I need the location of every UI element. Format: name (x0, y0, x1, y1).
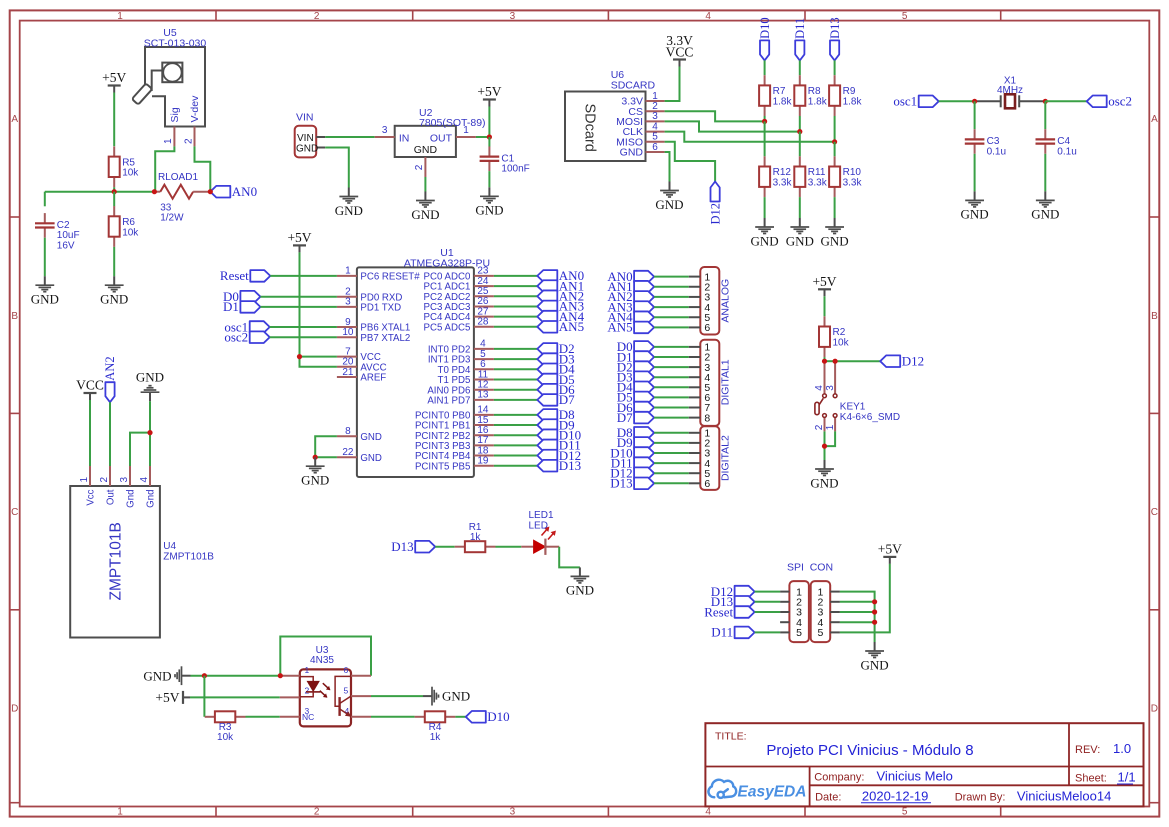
node junction gnd/R3 (202, 673, 207, 678)
svg-text:GND: GND (1031, 207, 1059, 222)
node junction +5V/VCC (297, 354, 302, 359)
net flag Reset (SPI) (704, 604, 754, 619)
wire SDCARD GND down (665, 152, 670, 182)
svg-text:Drawn By:: Drawn By: (955, 791, 1006, 803)
svg-text:7805(SOT-89): 7805(SOT-89) (419, 117, 486, 129)
wire D11 to DIGITAL2 (654, 462, 689, 464)
wire osc2 to U1 pin10 (270, 336, 337, 338)
svg-text:NC: NC (302, 712, 314, 722)
power flag +5V (R2) (812, 274, 836, 297)
svg-text:28: 28 (477, 317, 489, 328)
wire GND to U3 pin1 (191, 675, 281, 677)
svg-text:GND: GND (442, 689, 470, 704)
svg-text:GND: GND (414, 144, 438, 156)
wire AN0 to ANALOG (654, 276, 689, 278)
svg-text:21: 21 (342, 367, 354, 378)
wire D6 to DIGITAL1 (654, 407, 689, 409)
wire R6 to ground (113, 247, 115, 276)
svg-text:1.0: 1.0 (1113, 741, 1131, 756)
svg-text:10k: 10k (833, 338, 850, 349)
wire D13 to SPI (755, 601, 781, 603)
svg-text:PCINT5 PB5: PCINT5 PB5 (415, 461, 470, 472)
svg-text:DIGITAL1: DIGITAL1 (720, 359, 732, 405)
wire D10 to R7 (764, 60, 766, 75)
wire +5V to SPI pin5 (840, 564, 890, 633)
wire 3.3V to SDCARD pin1 (665, 67, 680, 102)
svg-text:RLOAD1: RLOAD1 (158, 172, 198, 183)
node junction KEY1 pin3/D12 (833, 359, 838, 364)
wire D11 to R8 (799, 60, 801, 75)
svg-text:6: 6 (704, 322, 710, 334)
svg-text:D12: D12 (902, 354, 924, 369)
connector SPI CON left column (780, 581, 809, 642)
svg-text:3: 3 (382, 125, 388, 136)
border column numbers (117, 11, 908, 818)
node junction KEY1 gnd (822, 444, 827, 449)
push button KEY1 K4-6x6_SMD (814, 361, 900, 431)
wire +5V to VCC/AVCC (300, 252, 337, 356)
wire Reset to SPI (755, 611, 781, 613)
net flag AN5 (ANALOG) (607, 320, 654, 335)
wire D4 to DIGITAL1 (654, 386, 689, 388)
wire C4 up (1044, 101, 1046, 129)
svg-text:Date:: Date: (815, 791, 841, 803)
svg-text:D13: D13 (610, 476, 632, 491)
svg-text:Vinicius Melo: Vinicius Melo (877, 769, 953, 784)
wire U1 to D3 flag (494, 358, 537, 360)
svg-text:GND: GND (136, 369, 164, 384)
svg-text:K4-6×6_SMD: K4-6×6_SMD (840, 412, 900, 423)
ground below C3 (961, 191, 989, 221)
current transformer U5 SCT-013-030 (132, 27, 207, 146)
wire pin1 loop over U3 to pin6 (280, 637, 371, 676)
wire U1 to AN0 flag (494, 275, 537, 277)
svg-text:3.3k: 3.3k (773, 178, 793, 189)
wire C3 up (974, 101, 976, 129)
wire D5 to DIGITAL1 (654, 396, 689, 398)
ground below C1 (475, 187, 503, 217)
svg-text:4: 4 (705, 11, 711, 22)
wire R5 to junction (113, 187, 115, 192)
wire U2 pin2 to ground (424, 177, 426, 192)
svg-text:2: 2 (314, 807, 320, 818)
connector ANALOG header (689, 267, 732, 335)
svg-text:B: B (11, 311, 18, 322)
sensor module U4 ZMPT101B (70, 466, 214, 638)
svg-text:6: 6 (344, 665, 349, 675)
net flag AN4 (ANALOG) (607, 310, 654, 325)
node junction U4 gnd (147, 430, 152, 435)
resistor R6 10k (109, 206, 140, 247)
svg-text:D13: D13 (391, 539, 413, 554)
wire D1 to U1 pin3 (260, 306, 337, 308)
net flag osc2 (U1) (224, 330, 269, 345)
node junction pin1 loop (278, 673, 283, 678)
wire D2 to DIGITAL1 (654, 366, 689, 368)
wire D1 to DIGITAL1 (654, 356, 689, 358)
net flag AN4 (U1) (537, 309, 584, 324)
wire U1 to D12 flag (494, 455, 537, 457)
ground below SPI (861, 642, 889, 672)
wire U1 GND pins (315, 436, 337, 457)
wire D7 to DIGITAL1 (654, 417, 689, 419)
wire U1 to D8 flag (494, 414, 537, 416)
svg-text:D10: D10 (758, 17, 772, 39)
wire osc1 to crystal (939, 100, 975, 102)
wire SDCARD MISO to D12 flag (665, 142, 716, 182)
wire U5 pin2 loop to AN0 node (195, 146, 211, 191)
svg-text:SPI CON: SPI CON (787, 562, 833, 574)
svg-text:2: 2 (99, 477, 110, 483)
svg-text:1: 1 (825, 424, 836, 430)
svg-text:4: 4 (705, 807, 711, 818)
wire U1 to D9 flag (494, 424, 537, 426)
svg-text:2: 2 (814, 424, 825, 430)
svg-text:Out: Out (106, 489, 117, 505)
svg-text:GND: GND (566, 583, 594, 598)
net flag D10 (top) (758, 17, 772, 60)
resistor RLOAD1 33 1/2W (zigzag) (154, 172, 210, 224)
svg-text:GND: GND (360, 432, 382, 443)
net flag AN0 (RLOAD1) (210, 184, 257, 199)
crystal X1 4MHz (975, 75, 1046, 108)
wire C3 to ground (974, 154, 976, 192)
svg-text:3.3k: 3.3k (843, 178, 863, 189)
svg-text:2: 2 (314, 11, 320, 22)
net flag D9 (DIGITAL2) (617, 435, 654, 450)
svg-text:0.1u: 0.1u (1057, 146, 1076, 157)
svg-text:5: 5 (817, 627, 823, 639)
wire C4 to ground (1044, 154, 1046, 192)
svg-text:GND: GND (296, 143, 318, 154)
node junction GND pins (313, 455, 318, 460)
svg-text:1k: 1k (430, 732, 442, 743)
node junction SPI pin4 (872, 620, 877, 625)
net flag D12 (SDCARD) (708, 182, 722, 225)
svg-text:C: C (1151, 507, 1158, 518)
net flag AN3 (U1) (537, 299, 584, 314)
wire node to R11 (799, 132, 801, 157)
net flag AN0 (U1) (537, 268, 584, 283)
svg-text:10: 10 (342, 327, 354, 338)
svg-text:GND: GND (961, 207, 989, 222)
wire U3 pin4 to R4 (371, 716, 415, 718)
net flag osc1 (U1) (224, 319, 269, 334)
svg-text:D7: D7 (559, 392, 575, 407)
wire U1 to D5 flag (494, 379, 537, 381)
wire D12 to SPI (755, 591, 781, 593)
power flag +5V (SPI) (878, 541, 902, 564)
net flag D12 (U1) (537, 448, 581, 463)
svg-text:+5V: +5V (477, 84, 501, 99)
svg-text:GND: GND (411, 207, 439, 222)
power flag +5V left of U3 (155, 690, 190, 705)
svg-text:AREF: AREF (360, 373, 386, 384)
ground above U4 (flipped) (136, 369, 164, 401)
wire AN2 to ANALOG (654, 296, 689, 298)
svg-text:3: 3 (825, 385, 836, 391)
MCU U1 ATMEGA328P-PU (337, 247, 494, 477)
svg-text:D13: D13 (559, 458, 581, 473)
wire Reset to U1 pin1 (270, 275, 337, 277)
net flag Reset (U1) (220, 268, 270, 283)
net flag D13 (SPI) (711, 594, 755, 609)
net flag AN3 (ANALOG) (607, 299, 654, 314)
svg-text:GND: GND (335, 203, 363, 218)
ground below KEY1 (810, 460, 838, 490)
wire R4 to D10 flag (455, 716, 465, 718)
svg-text:3: 3 (119, 477, 130, 483)
svg-text:A: A (1151, 114, 1158, 125)
net flag AN0 (ANALOG) (607, 269, 654, 284)
ground below SDCARD (655, 182, 683, 212)
svg-text:GND: GND (31, 292, 59, 307)
svg-text:GND: GND (100, 292, 128, 307)
connector DIGITAL2 header (689, 426, 732, 490)
svg-text:100nF: 100nF (501, 164, 529, 175)
svg-text:3: 3 (510, 11, 516, 22)
svg-text:2: 2 (414, 164, 425, 170)
svg-text:PC5 ADC5: PC5 ADC5 (424, 322, 471, 333)
net flag D13 (top) (828, 17, 842, 60)
resistor R10 3.3k (829, 156, 862, 197)
wire R12 to ground (764, 197, 766, 218)
svg-text:1k: 1k (470, 532, 482, 543)
resistor R3 10k (205, 711, 246, 743)
svg-text:TITLE:: TITLE: (715, 731, 747, 743)
wire U2 OUT to +5V node (476, 136, 490, 138)
svg-text:1: 1 (305, 665, 310, 675)
svg-text:osc2: osc2 (224, 330, 248, 345)
svg-text:D1: D1 (223, 299, 239, 314)
net flag AN2 (ANALOG) (607, 289, 654, 304)
wire R7 to node (764, 116, 766, 121)
svg-text:VCC: VCC (76, 378, 104, 393)
wire SDCARD CS to R7 node (665, 111, 765, 121)
svg-text:5: 5 (796, 627, 802, 639)
resistor R7 1.8k (759, 75, 792, 116)
svg-text:1: 1 (345, 266, 351, 277)
net flag D11 (SPI) (711, 625, 754, 640)
wire VCC to U4 pin1 (89, 400, 91, 466)
node junction SPI pin3 (872, 609, 877, 614)
node junction osc1/C3 (972, 99, 977, 104)
svg-text:2: 2 (305, 685, 310, 695)
net flag D4 (U1) (537, 362, 575, 377)
svg-text:SDCARD: SDCARD (611, 80, 656, 92)
svg-text:3: 3 (345, 297, 351, 308)
svg-text:VCC: VCC (666, 45, 694, 60)
wire node to C1 (488, 137, 490, 147)
ground flag left of U3 (143, 666, 190, 685)
svg-text:GND: GND (810, 475, 838, 490)
wire U1 to D11 flag (494, 444, 537, 446)
svg-text:ViniciusMeloo14: ViniciusMeloo14 (1017, 788, 1111, 803)
wire +5V to R2 (824, 296, 826, 316)
resistor R5 10k (109, 146, 140, 187)
wire D0 to U1 pin2 (260, 296, 337, 298)
ground below LED (566, 567, 594, 597)
svg-text:1/1: 1/1 (1118, 770, 1136, 785)
wire U1 to D4 flag (494, 368, 537, 370)
net flag D5 (DIGITAL1) (617, 390, 654, 405)
svg-text:+5V: +5V (287, 230, 311, 245)
net flag D7 (U1) (537, 392, 575, 407)
net flag AN1 (U1) (537, 278, 584, 293)
svg-text:PD1 TXD: PD1 TXD (360, 303, 401, 314)
net flag D3 (U1) (537, 351, 574, 366)
svg-text:10k: 10k (217, 732, 234, 743)
svg-text:D: D (1151, 704, 1158, 715)
wire R8 to node (799, 116, 801, 132)
svg-text:1.8k: 1.8k (808, 96, 828, 107)
net flag D6 (DIGITAL1) (617, 400, 654, 415)
net flag D0 (U1) (223, 289, 260, 304)
wire U1 to AN5 flag (494, 326, 537, 328)
wire U1 to D13 flag (494, 465, 537, 467)
net flag D10 (U3) (466, 709, 510, 724)
net flag D13 (DIGITAL2) (610, 476, 654, 491)
svg-text:16V: 16V (57, 241, 75, 252)
power flag +5V (R5 top) (102, 70, 126, 93)
connector SPI CON right column (811, 581, 840, 642)
net flag D0 (DIGITAL1) (617, 339, 654, 354)
svg-text:SDcard: SDcard (582, 104, 598, 152)
svg-text:19: 19 (477, 456, 489, 467)
net flag D11 (DIGITAL2) (611, 455, 654, 470)
wire D3 to DIGITAL1 (654, 376, 689, 378)
svg-text:AN0: AN0 (232, 184, 257, 199)
net flag D10 (DIGITAL2) (610, 445, 654, 460)
wire D0 to DIGITAL1 (654, 346, 689, 348)
wire node to R12 (764, 121, 766, 156)
svg-text:GND: GND (620, 147, 644, 159)
svg-text:D: D (11, 704, 18, 715)
wire U1 to D7 flag (494, 399, 537, 401)
wire D12 to DIGITAL2 (654, 472, 689, 474)
wire U1 to D10 flag (494, 434, 537, 436)
wire D13 to R9 (834, 60, 836, 75)
svg-text:Gnd: Gnd (146, 490, 157, 508)
wire R2 to node (824, 357, 826, 361)
svg-text:13: 13 (477, 390, 489, 401)
wire D10 to DIGITAL2 (654, 452, 689, 454)
svg-text:1.8k: 1.8k (773, 96, 793, 107)
resistor R2 10k (819, 316, 850, 357)
svg-text:A: A (11, 114, 18, 125)
svg-text:DIGITAL2: DIGITAL2 (720, 435, 732, 481)
wire junction to RLOAD1 left (114, 191, 154, 193)
wire R11 to ground (799, 197, 801, 218)
svg-text:6: 6 (704, 478, 710, 490)
wire +5V to U3 pin2 (190, 696, 280, 698)
diode LED1 (red) (521, 510, 559, 555)
svg-text:GND: GND (821, 233, 849, 248)
net flag osc2 (crystal) (1087, 94, 1132, 109)
svg-text:22: 22 (342, 447, 354, 458)
net flag osc1 (crystal) (893, 94, 938, 109)
svg-text:ZMPT101B: ZMPT101B (108, 522, 125, 600)
net flag D7 (DIGITAL1) (617, 410, 654, 425)
svg-text:5: 5 (902, 11, 908, 22)
net flag AN2 (U1) (537, 289, 584, 304)
svg-text:10k: 10k (122, 168, 139, 179)
svg-text:3.3k: 3.3k (808, 178, 828, 189)
svg-text:1.8k: 1.8k (843, 96, 863, 107)
svg-text:GND: GND (751, 233, 779, 248)
node junction R9/R10 (832, 139, 837, 144)
wire D8 to DIGITAL2 (654, 432, 689, 434)
wire node to R10 (834, 142, 836, 157)
svg-text:AIN1 PD7: AIN1 PD7 (427, 396, 470, 407)
svg-text:D10: D10 (487, 709, 509, 724)
wire junction to R6 (113, 192, 115, 207)
net flag AN2 (U4) (103, 356, 117, 402)
svg-text:+5V: +5V (812, 274, 836, 289)
net flag D8 (DIGITAL2) (617, 425, 654, 440)
net flag D11 (top) (793, 18, 807, 61)
net flag D4 (DIGITAL1) (617, 380, 654, 395)
power flag 3.3V VCC (666, 33, 694, 67)
svg-text:osc2: osc2 (1108, 94, 1132, 109)
net flag D3 (DIGITAL1) (617, 370, 654, 385)
wire AN4 to ANALOG (654, 316, 689, 318)
svg-text:AN5: AN5 (559, 319, 584, 334)
node junction R5/R6/C2/RLOAD1 (112, 189, 117, 194)
power flag VCC (U4) (76, 378, 104, 401)
resistor R4 1k (415, 711, 456, 743)
svg-text:1: 1 (163, 138, 174, 144)
svg-text:PC6 RESET#: PC6 RESET# (360, 272, 420, 283)
svg-text:Reset: Reset (704, 604, 733, 619)
node junction R2/KEY1 pin4 (822, 359, 827, 364)
svg-text:REV:: REV: (1075, 744, 1100, 756)
ground flag right of U3 (423, 687, 470, 706)
ground below R12 (751, 218, 779, 248)
svg-text:6: 6 (652, 142, 658, 153)
svg-text:D7: D7 (617, 410, 633, 425)
net flag D9 (U1) (537, 417, 574, 432)
wire U5 pin1 loop to RLOAD1 left (155, 146, 174, 191)
svg-text:Sheet:: Sheet: (1075, 773, 1107, 785)
node junction osc2/C4 (1043, 99, 1048, 104)
wire +5V to R5 (113, 93, 115, 147)
svg-text:VIN: VIN (296, 112, 314, 124)
net flag D12 (SPI) (711, 584, 755, 599)
wire C1 to ground (488, 171, 490, 187)
net flag D12 (KEY1) (880, 354, 924, 369)
svg-text:1: 1 (117, 11, 123, 22)
regulator U2 7805(SOT-89) (375, 107, 486, 177)
svg-text:10k: 10k (122, 227, 139, 238)
svg-text:GND: GND (360, 453, 382, 464)
svg-text:D11: D11 (711, 625, 733, 640)
svg-text:+5V: +5V (878, 541, 902, 556)
net flag D1 (DIGITAL1) (617, 349, 654, 364)
svg-text:V-dev: V-dev (189, 95, 201, 123)
title block outline (705, 723, 1143, 806)
net flag D11 (U1) (537, 438, 580, 453)
svg-text:GND: GND (861, 657, 889, 672)
svg-text:AN5: AN5 (607, 320, 632, 335)
wire osc1 to U1 pin9 (270, 326, 337, 328)
svg-text:AN2: AN2 (103, 356, 117, 380)
net flag D5 (U1) (537, 372, 574, 387)
svg-text:Gnd: Gnd (126, 490, 137, 508)
svg-text:2: 2 (183, 138, 194, 144)
resistor R11 3.3k (794, 156, 827, 197)
connector VIN (2-pin) (295, 112, 326, 158)
